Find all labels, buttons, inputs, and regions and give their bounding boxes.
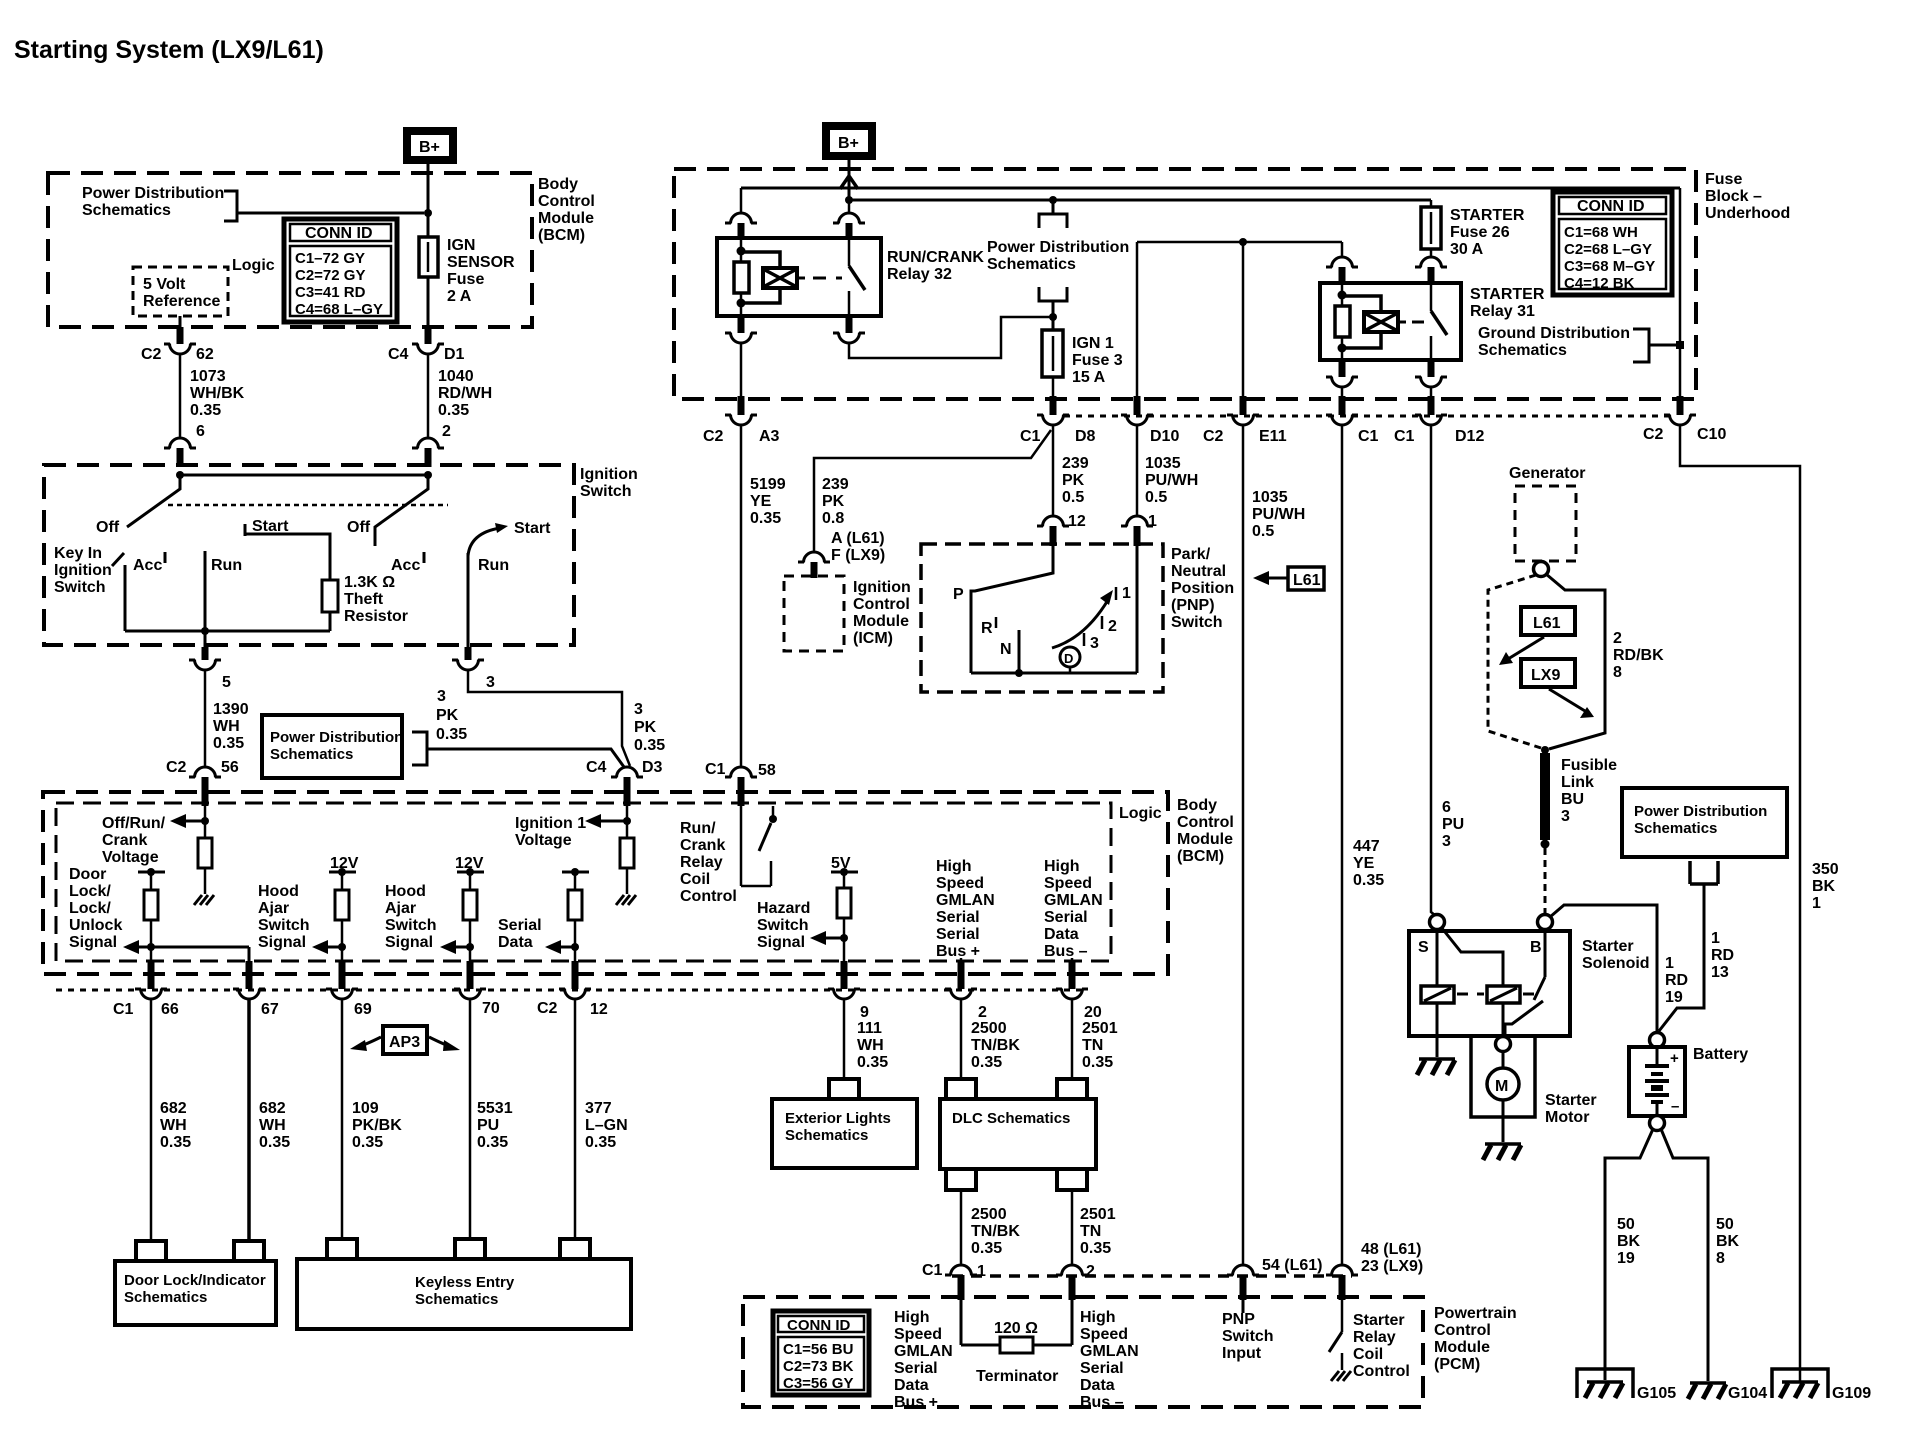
svg-text:Keyless Entry: Keyless Entry [415, 1274, 515, 1291]
Exterior Lights Schematics box [772, 1099, 917, 1168]
svg-text:TN/BK: TN/BK [971, 1223, 1020, 1240]
svg-text:111: 111 [857, 1020, 882, 1037]
wire 2500 TN/BK 0.35 upper [961, 999, 1020, 1077]
svg-text:Power Distribution: Power Distribution [1634, 803, 1767, 820]
svg-text:PK: PK [436, 707, 459, 724]
label N with contact line [1000, 630, 1023, 677]
svg-text:GMLAN: GMLAN [1044, 892, 1103, 909]
svg-text:N: N [1000, 641, 1012, 658]
svg-text:Serial: Serial [1080, 1360, 1124, 1377]
svg-text:Logic: Logic [232, 257, 275, 274]
IGN SENSOR Fuse 2 A [419, 237, 515, 305]
connector C2 pin 56 (BCM entry) [166, 759, 239, 806]
door lock supply bar [138, 868, 165, 876]
wire 6 PU 3 (relay31 switch to solenoid S) [1431, 425, 1464, 916]
svg-text:3: 3 [1561, 808, 1570, 825]
Run wire right down [467, 553, 470, 649]
svg-text:BK: BK [1617, 1233, 1641, 1250]
Run contact wire [204, 551, 207, 631]
svg-text:PU/WH: PU/WH [1145, 472, 1198, 489]
svg-text:Lock/: Lock/ [69, 900, 111, 917]
svg-text:Control: Control [853, 596, 910, 613]
wire 377 L-GN 0.35 (12) [575, 999, 628, 1238]
svg-text:Bus –: Bus – [1080, 1394, 1124, 1411]
hood ajar 1 supply bar and resistor [329, 868, 356, 961]
node Run-bottom junction [201, 627, 209, 635]
off-page bracket lower [1039, 287, 1067, 330]
PNP bottom contact line [971, 672, 1137, 675]
svg-text:Data: Data [498, 934, 533, 951]
svg-text:DLC Schematics: DLC Schematics [952, 1110, 1070, 1127]
svg-text:Run/: Run/ [680, 820, 716, 837]
plug 12 to keyless box [560, 1239, 590, 1259]
node IGN1 tap [1049, 196, 1057, 204]
plug DLC out 1 [946, 1171, 976, 1190]
svg-text:Control: Control [1353, 1363, 1410, 1380]
svg-text:R: R [981, 620, 993, 637]
svg-text:Fuse: Fuse [447, 271, 484, 288]
label High Speed GMLAN Serial Data Bus + [894, 1309, 953, 1411]
solenoid linkage dashes [1457, 993, 1540, 996]
svg-text:CONN ID: CONN ID [787, 1317, 851, 1334]
svg-text:682: 682 [160, 1100, 187, 1117]
svg-text:IGN: IGN [447, 237, 475, 254]
connector pin 2 (bus +) [945, 961, 987, 1021]
svg-text:Off/Run/: Off/Run/ [102, 815, 166, 832]
Ignition Control Module (ICM) dashed box [784, 576, 911, 651]
svg-text:Coil: Coil [1353, 1346, 1383, 1363]
connector pin D10 [1121, 396, 1179, 445]
svg-text:C1: C1 [922, 1262, 943, 1279]
Door Lock/Indicator Schematics box [115, 1261, 276, 1325]
wire 5531 PU 0.35 (70) [470, 999, 513, 1238]
svg-text:E11: E11 [1259, 428, 1287, 445]
starter motor M circle [1487, 1051, 1519, 1100]
svg-text:Fuse 26: Fuse 26 [1450, 224, 1510, 241]
svg-text:Switch: Switch [757, 917, 809, 934]
label Hood Ajar Switch Signal 1 with arrow [258, 883, 346, 954]
wire 239 PK 0.5 to PNP pin 12 [1053, 425, 1089, 517]
theft resistor 1.3K [322, 574, 408, 631]
svg-text:Generator: Generator [1509, 465, 1585, 482]
svg-text:Park/: Park/ [1171, 546, 1211, 563]
5 Volt Reference dashed box [133, 267, 228, 316]
wire E11 drop [1242, 242, 1245, 398]
svg-text:1035: 1035 [1252, 489, 1288, 506]
wire 682 WH 0.35 (66) [151, 999, 191, 1240]
wire relay32 switch to IGN1 fuse [849, 317, 1053, 358]
CONN ID table (PCM) [773, 1311, 869, 1395]
connector relay32 coil out (exit) [725, 316, 757, 343]
wire 1035 PU/WH 0.5 (E11 to PCM pin 54) [1243, 425, 1305, 1266]
svg-text:Off: Off [347, 519, 371, 536]
connector pin 9 (hazard) [828, 961, 869, 1021]
svg-text:AP3: AP3 [389, 1034, 420, 1051]
svg-text:Speed: Speed [1080, 1326, 1128, 1343]
wire 1040 RD/WH 0.35 [428, 354, 492, 437]
svg-text:RD: RD [1665, 972, 1688, 989]
svg-text:50: 50 [1617, 1216, 1635, 1233]
svg-text:Serial: Serial [498, 917, 542, 934]
svg-text:Relay 31: Relay 31 [1470, 303, 1535, 320]
svg-text:0.35: 0.35 [190, 402, 221, 419]
solenoid coil 1 [1421, 986, 1454, 1003]
wire 3 PK 0.35 to C4/D3 [436, 670, 665, 766]
svg-text:3: 3 [1090, 635, 1099, 652]
Keyless Entry Schematics box [297, 1259, 631, 1329]
off-page bracket Power Distribution (fuse block) upper [1039, 200, 1067, 228]
svg-text:C4=68 L–GY: C4=68 L–GY [295, 301, 383, 318]
svg-text:Terminator: Terminator [976, 1368, 1058, 1385]
plug 66 to door lock box [136, 1241, 166, 1261]
label 2 RD/BK 8 [1613, 630, 1664, 681]
svg-text:Hood: Hood [385, 883, 426, 900]
connector pin A/F (ICM entry) [798, 552, 830, 578]
svg-text:Acc: Acc [133, 557, 162, 574]
label High Speed GMLAN Serial Serial Bus + [936, 858, 995, 960]
connector pin 69 [326, 961, 372, 1018]
svg-text:Control: Control [538, 193, 595, 210]
svg-text:D3: D3 [642, 759, 663, 776]
svg-text:WH: WH [259, 1117, 286, 1134]
plug DLC out 2 [1057, 1171, 1087, 1190]
svg-text:+: + [1670, 1050, 1679, 1067]
svg-text:Unlock: Unlock [69, 917, 122, 934]
svg-text:Reference: Reference [143, 293, 220, 310]
label Hood Ajar Switch Signal 2 with arrow [385, 883, 474, 954]
svg-text:5: 5 [222, 674, 231, 691]
label Acc with contact tick [133, 552, 165, 574]
relay32 linkage dashes [813, 277, 842, 280]
svg-text:Bus +: Bus + [894, 1394, 938, 1411]
svg-text:377: 377 [585, 1100, 612, 1117]
label Serial Data with arrow [498, 917, 579, 954]
svg-text:Control: Control [1434, 1322, 1491, 1339]
starter motor ground [1483, 1100, 1521, 1160]
label STARTER Relay 31 [1470, 286, 1545, 320]
connector C2 pin 12 [537, 961, 608, 1018]
svg-text:C2=68 L–GY: C2=68 L–GY [1564, 241, 1652, 258]
starter motor housing [1471, 1036, 1535, 1117]
svg-text:0.35: 0.35 [971, 1054, 1002, 1071]
svg-text:(PNP): (PNP) [1171, 597, 1215, 614]
svg-text:D8: D8 [1075, 428, 1096, 445]
solenoid coil 2 down [1502, 1003, 1505, 1036]
svg-text:109: 109 [352, 1100, 379, 1117]
svg-text:62: 62 [196, 346, 214, 363]
svg-text:Speed: Speed [936, 875, 984, 892]
wire 5V reference down [179, 316, 182, 327]
svg-text:Speed: Speed [1044, 875, 1092, 892]
svg-text:Run: Run [211, 557, 242, 574]
svg-text:C10: C10 [1697, 426, 1726, 443]
STARTER Relay 31 box [1320, 283, 1461, 360]
ground G104 [1688, 1383, 1767, 1402]
svg-text:2: 2 [1108, 618, 1117, 635]
svg-text:13: 13 [1711, 964, 1729, 981]
off-page bracket to Power Distribution Schematics [224, 191, 424, 221]
relay31 switch [1431, 283, 1447, 360]
label Ignition Switch [580, 466, 638, 500]
svg-text:5199: 5199 [750, 476, 786, 493]
Acc contact wire [125, 565, 330, 631]
svg-text:A3: A3 [759, 428, 780, 445]
solenoid coil 2 feed [1441, 927, 1503, 986]
svg-text:0.35: 0.35 [857, 1054, 888, 1071]
label Hazard Switch Signal with arrow [757, 900, 848, 951]
mechanical linkage dashed line [168, 504, 448, 507]
label PNP Switch Input [1222, 1311, 1274, 1362]
svg-text:C2: C2 [1203, 428, 1224, 445]
svg-text:Serial: Serial [936, 926, 980, 943]
svg-text:Start: Start [252, 518, 289, 535]
svg-text:Motor: Motor [1545, 1109, 1589, 1126]
svg-text:Key In: Key In [54, 545, 102, 562]
svg-text:C4=12 BK: C4=12 BK [1564, 275, 1635, 292]
L61 tag with arrow [1253, 567, 1324, 590]
svg-text:Resistor: Resistor [344, 608, 408, 625]
svg-text:C1=68 WH: C1=68 WH [1564, 224, 1638, 241]
svg-text:0.35: 0.35 [971, 1240, 1002, 1257]
svg-text:PU: PU [1442, 816, 1464, 833]
right switch blade (Off) [375, 475, 428, 546]
svg-text:(BCM): (BCM) [1177, 848, 1224, 865]
svg-text:–: – [1671, 1098, 1679, 1115]
svg-text:PK: PK [634, 719, 657, 736]
wire bus to relay 32 switch [848, 200, 851, 214]
Powertrain Control Module (PCM) dashed box [743, 1297, 1423, 1407]
position tick 1 [1116, 585, 1131, 602]
svg-text:Off: Off [96, 519, 120, 536]
svg-text:19: 19 [1665, 989, 1683, 1006]
svg-text:RD: RD [1711, 947, 1734, 964]
svg-text:BK: BK [1812, 878, 1836, 895]
svg-text:C1–72 GY: C1–72 GY [295, 250, 365, 267]
svg-text:67: 67 [261, 1001, 279, 1018]
svg-text:Control: Control [680, 888, 737, 905]
svg-text:Data: Data [1080, 1377, 1115, 1394]
svg-text:66: 66 [161, 1001, 179, 1018]
svg-text:2501: 2501 [1080, 1206, 1116, 1223]
svg-text:D: D [1064, 651, 1073, 666]
wire 1 RD 19 (B to battery +) [1550, 905, 1688, 1033]
svg-text:2: 2 [442, 423, 451, 440]
svg-text:Ajar: Ajar [258, 900, 289, 917]
wire 1 RD 13 to battery + [1659, 884, 1734, 1031]
svg-text:C4: C4 [586, 759, 607, 776]
label R with tick [981, 617, 996, 637]
svg-text:0.35: 0.35 [160, 1134, 191, 1151]
svg-text:G104: G104 [1728, 1385, 1767, 1402]
svg-text:Power Distribution: Power Distribution [270, 729, 403, 746]
svg-text:Starter: Starter [1545, 1092, 1597, 1109]
battery cells [1645, 1047, 1669, 1116]
node fusible link top [1541, 746, 1549, 754]
svg-text:PU: PU [477, 1117, 499, 1134]
svg-text:239: 239 [1062, 455, 1089, 472]
svg-text:YE: YE [1353, 855, 1375, 872]
svg-text:Schematics: Schematics [270, 746, 353, 763]
fusible link BU 3 [1545, 753, 1617, 840]
svg-text:LX9: LX9 [1531, 667, 1560, 684]
wire 1035 PU/WH 0.5 to PNP pin 1 [1137, 425, 1198, 517]
left switch blade (Off) [127, 475, 180, 527]
svg-text:0.35: 0.35 [750, 510, 781, 527]
svg-text:CONN ID: CONN ID [305, 225, 373, 242]
svg-text:GMLAN: GMLAN [894, 1343, 953, 1360]
wire B+ left down into BCM [427, 164, 430, 237]
LX9 tag box with arrow [1521, 659, 1594, 718]
svg-text:Relay: Relay [680, 854, 723, 871]
plug bus+ to DLC [946, 1079, 976, 1099]
svg-text:TN: TN [1080, 1223, 1101, 1240]
svg-text:B+: B+ [419, 139, 440, 156]
svg-text:0.5: 0.5 [1062, 489, 1084, 506]
svg-text:C3=41 RD: C3=41 RD [295, 284, 366, 301]
svg-text:Exterior Lights: Exterior Lights [785, 1110, 891, 1127]
svg-text:Position: Position [1171, 580, 1234, 597]
connector C2 pin E11 [1203, 396, 1287, 445]
wire off/run/crank voltage input [204, 806, 207, 838]
AP3 tag with arrows [350, 1026, 460, 1054]
svg-text:Starter: Starter [1582, 938, 1634, 955]
wire 447 YE 0.35 (relay31 coil to PCM) [1342, 425, 1384, 1266]
svg-text:2: 2 [1613, 630, 1622, 647]
label Starter Relay Coil Control [1353, 1312, 1410, 1380]
svg-text:1390: 1390 [213, 701, 249, 718]
wire 109 PK/BK 0.35 (69) [342, 999, 402, 1240]
label Power Distribution Schematics (fuse block) [987, 239, 1129, 273]
L61 tag box with arrow [1499, 607, 1575, 665]
Battery box [1629, 1046, 1748, 1116]
label High Speed GMLAN Serial Data Bus - [1044, 858, 1103, 960]
svg-text:Module: Module [538, 210, 594, 227]
svg-text:2 A: 2 A [447, 288, 472, 305]
connector pin 3 (ignition switch exit) [452, 647, 495, 691]
wire 50 BK 19 to G105 [1605, 1129, 1653, 1380]
svg-text:8: 8 [1716, 1250, 1725, 1267]
svg-text:0.35: 0.35 [634, 737, 665, 754]
svg-text:Theft: Theft [344, 591, 384, 608]
svg-text:0.8: 0.8 [822, 510, 844, 527]
svg-text:1035: 1035 [1145, 455, 1181, 472]
connector C2 pin A3 [703, 396, 780, 445]
svg-text:Speed: Speed [894, 1326, 942, 1343]
position tick 3 [1084, 633, 1099, 652]
svg-text:C2: C2 [703, 428, 724, 445]
svg-text:STARTER: STARTER [1450, 207, 1525, 224]
wire bus inside ignition switch [180, 474, 428, 477]
relay31 coil winding [1342, 296, 1406, 348]
svg-text:High: High [1044, 858, 1080, 875]
svg-text:Ignition 1: Ignition 1 [515, 815, 586, 832]
svg-text:D1: D1 [444, 346, 465, 363]
relay32 switch [849, 238, 865, 316]
svg-text:9: 9 [860, 1004, 869, 1021]
wire ignition switch output 5 [204, 631, 207, 649]
fuse block bottom connector dotted line [1064, 415, 1676, 418]
svg-text:Relay: Relay [1353, 1329, 1396, 1346]
svg-text:Module: Module [1177, 831, 1233, 848]
svg-text:Starting System (LX9/L61): Starting System (LX9/L61) [14, 36, 324, 64]
svg-text:Switch: Switch [1222, 1328, 1274, 1345]
BCM logic inner dashed box [56, 803, 1111, 961]
svg-text:Voltage: Voltage [102, 849, 159, 866]
label Off/Run/Crank Voltage with arrow [102, 814, 205, 866]
svg-text:D12: D12 [1455, 428, 1484, 445]
svg-text:C1: C1 [1358, 428, 1379, 445]
svg-text:G105: G105 [1637, 1385, 1676, 1402]
svg-text:RD/WH: RD/WH [438, 385, 492, 402]
S terminal circle [1418, 915, 1445, 957]
svg-text:Serial: Serial [1044, 909, 1088, 926]
connector C1 pin 1 (PCM entry) [922, 1262, 986, 1300]
svg-text:C1: C1 [705, 761, 726, 778]
svg-text:GMLAN: GMLAN [1080, 1343, 1139, 1360]
svg-text:Underhood: Underhood [1705, 205, 1790, 222]
connector relay31 switch pin (entry) [1415, 249, 1447, 285]
label Fuse Block - Underhood [1705, 171, 1790, 222]
off-page bracket right of power distribution box [412, 732, 624, 767]
svg-text:CONN ID: CONN ID [1577, 198, 1645, 215]
svg-text:PU/WH: PU/WH [1252, 506, 1305, 523]
svg-text:5531: 5531 [477, 1100, 513, 1117]
DLC Schematics box [940, 1099, 1096, 1169]
relay32 coil winding [741, 252, 805, 303]
svg-text:1.3K Ω: 1.3K Ω [344, 574, 395, 591]
svg-text:1: 1 [977, 1263, 986, 1280]
svg-text:WH: WH [160, 1117, 187, 1134]
wire 1390 WH 0.35 [205, 670, 249, 768]
svg-text:Signal: Signal [258, 934, 306, 951]
svg-text:8: 8 [1613, 664, 1622, 681]
svg-text:C1: C1 [113, 1001, 134, 1018]
svg-text:Signal: Signal [69, 934, 117, 951]
wire from fuse to BCM edge [427, 277, 430, 327]
plug bus- to DLC [1057, 1079, 1087, 1099]
connector pin 1 (PNP entry) [1121, 513, 1157, 546]
label Key In Ignition Switch [54, 545, 112, 596]
Ignition Switch dashed box [44, 465, 574, 645]
svg-text:S: S [1418, 939, 1429, 956]
svg-text:2500: 2500 [971, 1206, 1007, 1223]
svg-text:D10: D10 [1150, 428, 1179, 445]
connector pin 2 (ignition switch entry) [412, 423, 451, 467]
wire relay31 coil feed [1137, 241, 1342, 244]
label Run/Crank Relay Coil Control [680, 820, 737, 905]
svg-text:Schematics: Schematics [1478, 342, 1567, 359]
svg-text:12: 12 [590, 1001, 608, 1018]
svg-text:0.5: 0.5 [1145, 489, 1167, 506]
svg-text:BK: BK [1716, 1233, 1740, 1250]
svg-text:L61: L61 [1533, 615, 1561, 632]
svg-text:Schematics: Schematics [785, 1127, 868, 1144]
wire PNP pin 1 inside [1136, 546, 1139, 673]
svg-text:350: 350 [1812, 861, 1839, 878]
svg-text:PK/BK: PK/BK [352, 1117, 402, 1134]
label Powertrain Control Module (PCM) [1434, 1305, 1517, 1373]
svg-text:Ignition: Ignition [54, 562, 112, 579]
svg-text:C2: C2 [141, 346, 162, 363]
svg-text:6: 6 [196, 423, 205, 440]
svg-text:Data: Data [894, 1377, 929, 1394]
svg-text:A (L61): A (L61) [831, 530, 885, 547]
svg-text:SENSOR: SENSOR [447, 254, 515, 271]
wire 2501 TN 0.35 upper [1072, 999, 1118, 1077]
label Starter Solenoid [1582, 938, 1650, 972]
svg-text:0.35: 0.35 [438, 402, 469, 419]
svg-text:69: 69 [354, 1001, 372, 1018]
